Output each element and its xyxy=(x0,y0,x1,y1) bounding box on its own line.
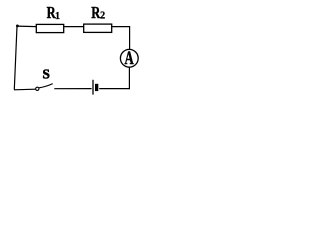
wire battery to switch xyxy=(54,88,91,90)
ammeter U1 circle xyxy=(120,49,138,67)
resistor R2 xyxy=(84,24,112,32)
switch S pivot circle xyxy=(36,87,39,90)
svg-text:S: S xyxy=(43,67,50,82)
wire top-left segment xyxy=(17,25,37,28)
wire right vertical lower xyxy=(128,67,130,89)
switch S arm xyxy=(39,84,53,88)
svg-text:2: 2 xyxy=(100,10,105,21)
resistor R1 xyxy=(36,24,63,32)
svg-text:A: A xyxy=(125,49,135,69)
wire between R1 and R2 xyxy=(64,26,84,28)
wire bottom-right segment xyxy=(99,88,130,90)
battery BT1 positive plate (long thin) xyxy=(92,80,94,95)
wire right vertical upper xyxy=(129,26,131,50)
svg-text:1: 1 xyxy=(55,11,60,22)
wire bottom-left segment xyxy=(14,88,36,91)
wire R2 to top-right corner xyxy=(112,26,130,28)
node top-left junction dot xyxy=(16,25,19,28)
wire left vertical xyxy=(14,26,17,90)
battery BT1 negative plate (short thick) xyxy=(95,84,98,91)
